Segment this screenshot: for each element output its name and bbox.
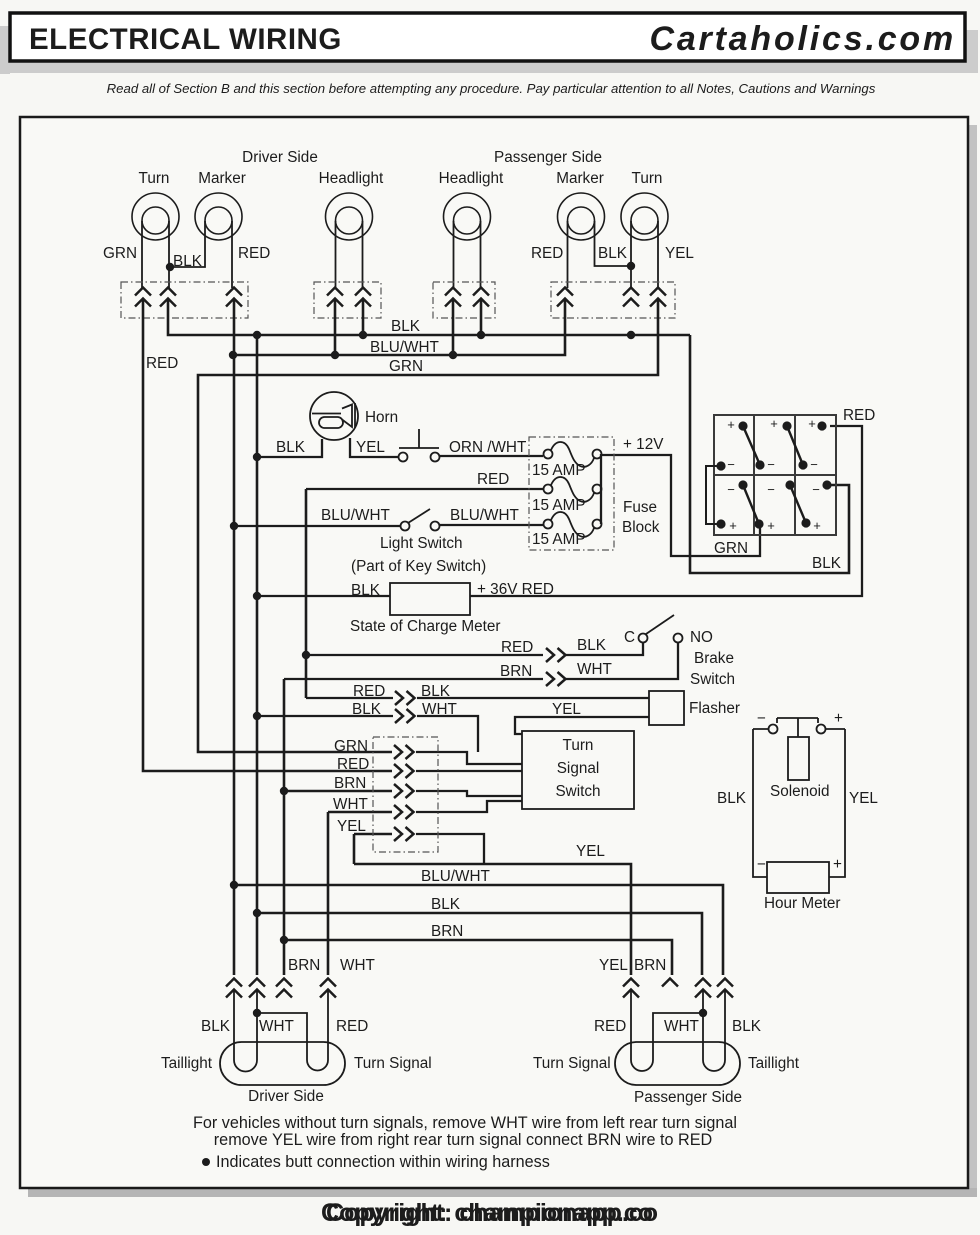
header box	[10, 13, 965, 61]
svg-text:GRN: GRN	[389, 358, 423, 375]
wire BLU/WHT light switch feed	[234, 525, 400, 527]
connector pins brake RED/BLK	[546, 648, 566, 662]
svg-text:BRN: BRN	[334, 775, 366, 792]
svg-text:WHT: WHT	[333, 796, 368, 813]
connector pins passenger turn BLK	[623, 288, 639, 307]
wire headlight passenger BLK drop	[480, 300, 483, 335]
junction BLU/WHT bus tap	[229, 351, 237, 359]
svg-text:BLK: BLK	[717, 790, 747, 807]
svg-text:YEL: YEL	[849, 790, 878, 807]
svg-text:BRN: BRN	[634, 957, 666, 974]
svg-text:Passenger Side: Passenger Side	[494, 149, 602, 166]
connector pins driver marker BLK	[160, 288, 176, 307]
junction BRN rear bus	[280, 936, 288, 944]
wire passenger turn RED leg	[630, 990, 632, 1060]
wire turn signal switch pin 5 to YEL bus	[416, 834, 484, 864]
svg-text:Solenoid: Solenoid	[770, 783, 830, 800]
turn signal switch connector box	[373, 737, 438, 852]
svg-text:−: −	[727, 482, 735, 497]
svg-text:BLU/WHT: BLU/WHT	[321, 507, 390, 524]
wire passenger taillight legs	[703, 990, 725, 1060]
svg-text:Turn Signal: Turn Signal	[354, 1055, 432, 1072]
connector pins passenger turn YEL	[650, 288, 666, 307]
horn	[310, 392, 358, 440]
svg-text:ELECTRICAL WIRING: ELECTRICAL WIRING	[29, 23, 342, 56]
svg-text:RED: RED	[337, 756, 369, 773]
connector pins driver turn GRN	[135, 288, 151, 307]
wire WHT brake switch NO	[565, 643, 678, 679]
svg-text:RED: RED	[501, 639, 533, 656]
lamp Headlight driver	[326, 193, 373, 240]
svg-text:+: +	[813, 518, 821, 533]
junction TSS BRN	[280, 787, 288, 795]
wire turn signal switch pin 4	[416, 801, 522, 812]
battery series loop left	[706, 466, 721, 524]
svg-text:BLK: BLK	[598, 245, 628, 262]
svg-text:BLK: BLK	[812, 555, 842, 572]
junction passenger taillight WHT	[699, 1009, 707, 1017]
svg-text:BLU/WHT: BLU/WHT	[370, 339, 439, 356]
wire driver taillight WHT link	[257, 1013, 307, 1060]
svg-text:Brake: Brake	[694, 650, 734, 667]
wire headlight driver BLU/WHT drop	[334, 300, 337, 355]
svg-text:BLU/WHT: BLU/WHT	[421, 868, 490, 885]
svg-text:+: +	[767, 518, 775, 533]
svg-text:+: +	[727, 417, 735, 432]
junction BLK bus rail	[253, 331, 261, 339]
wire marker driver left pigtail to BLK joint	[170, 221, 205, 267]
svg-text:RED: RED	[353, 683, 385, 700]
svg-text:+ 12V: + 12V	[623, 436, 664, 453]
connector pins TSS WHT	[394, 805, 414, 819]
junction driver headlight BLK	[359, 331, 367, 339]
junction driver headlight BLU/WHT	[331, 351, 339, 359]
svg-text:Driver Side: Driver Side	[248, 1088, 324, 1105]
svg-text:WHT: WHT	[664, 1018, 699, 1035]
wire horn BLK	[257, 439, 322, 457]
svg-text:BLK: BLK	[276, 439, 306, 456]
wire headlight driver BLK drop	[362, 300, 365, 335]
junction meter BLK	[253, 592, 261, 600]
wire WHT row to turn signal switch	[328, 811, 392, 814]
lamp Headlight passenger	[444, 193, 491, 240]
wire +12V to battery GRN	[601, 455, 760, 556]
svg-text:RED: RED	[594, 1018, 626, 1035]
hour meter	[767, 862, 829, 893]
svg-text:For vehicles without turn sign: For vehicles without turn signals, remov…	[193, 1114, 737, 1132]
wire turn passenger BLK pigtail	[630, 221, 632, 288]
wire RED fuse feed rail	[305, 489, 308, 698]
wire BLK rail to rear driver	[256, 335, 259, 975]
svg-text:15 AMP: 15 AMP	[532, 497, 586, 514]
wire headlight passenger BLU/WHT drop	[452, 300, 455, 355]
svg-text:Taillight: Taillight	[748, 1055, 800, 1072]
wire marker passenger right pigtail to BLK joint	[595, 221, 632, 266]
bulb passenger taillight	[703, 1060, 725, 1071]
battery interconnect cables	[718, 423, 831, 528]
junction passenger headlight BLU/WHT	[449, 351, 457, 359]
svg-text:+ 36V RED: + 36V RED	[477, 581, 554, 598]
wire +36V RED battery to meter	[470, 426, 862, 596]
svg-text:YEL: YEL	[599, 957, 628, 974]
svg-text:Turn: Turn	[139, 170, 170, 187]
fuse F2 15 AMP	[544, 477, 602, 502]
lamp housing passenger	[615, 1042, 740, 1085]
wire turn signal switch pin 1	[416, 752, 522, 764]
svg-text:Headlight: Headlight	[439, 170, 504, 187]
svg-text:BLU/WHT: BLU/WHT	[450, 507, 519, 524]
svg-text:Marker: Marker	[198, 170, 246, 187]
svg-text:Fuse: Fuse	[623, 499, 657, 516]
wire turn driver BLK pigtail	[168, 221, 170, 288]
brake switch	[639, 615, 683, 643]
junction BLU/WHT rear bus	[230, 881, 238, 889]
svg-text:BLK: BLK	[732, 1018, 762, 1035]
wire BLK rear bus	[257, 913, 702, 975]
connector rear passenger WHT fork	[662, 979, 678, 987]
svg-text:WHT: WHT	[577, 661, 612, 678]
junction brake RED	[302, 651, 310, 659]
junction horn BLK	[253, 453, 261, 461]
svg-text:+: +	[729, 518, 737, 533]
junction driver taillight WHT	[253, 1009, 261, 1017]
svg-text:Turn: Turn	[563, 737, 594, 754]
wire turn signal switch pin 2	[416, 770, 522, 772]
svg-text:C: C	[624, 629, 635, 646]
wire BLU/WHT bus headlights	[233, 300, 565, 355]
junction BLK rear bus	[253, 909, 261, 917]
connector pins driver headlight BLU/WHT	[327, 288, 343, 307]
wire passenger WHT link	[653, 1013, 703, 1060]
svg-text:GRN: GRN	[714, 540, 748, 557]
wire BRN rail to rear driver	[283, 679, 286, 975]
svg-text:Light Switch: Light Switch	[380, 535, 462, 552]
wire driver taillight WHT leg	[256, 990, 258, 1060]
connector rear driver BRN	[276, 979, 292, 998]
junction passenger turn BLK	[627, 331, 635, 339]
svg-text:Switch: Switch	[555, 783, 600, 800]
wire turn passenger YEL pigtail	[657, 221, 659, 288]
battery terminal labels	[727, 416, 821, 533]
fuse F1 15 AMP	[544, 442, 602, 467]
wire WHT rail turn signal switch to rear driver	[327, 812, 330, 975]
turn signal switch box	[522, 731, 634, 809]
svg-text:+: +	[808, 416, 816, 431]
wire BLK brake switch common	[565, 643, 643, 655]
svg-text:(Part of Key Switch): (Part of Key Switch)	[351, 558, 486, 575]
svg-text:Taillight: Taillight	[161, 1055, 213, 1072]
connector pins TSS YEL	[394, 827, 414, 841]
wire BLK battery return	[690, 335, 849, 573]
svg-text:WHT: WHT	[422, 701, 457, 718]
wire turn signal switch pin 3	[416, 791, 522, 796]
svg-text:Marker: Marker	[556, 170, 604, 187]
junction flasher BLK	[253, 712, 261, 720]
svg-text:BLK: BLK	[421, 683, 451, 700]
connector pins passenger marker RED	[557, 288, 573, 307]
svg-text:Indicates butt connection with: Indicates butt connection within wiring …	[216, 1153, 550, 1171]
wire YEL rear bus to passenger turn signal	[354, 864, 631, 975]
svg-text:Flasher: Flasher	[689, 700, 740, 717]
svg-text:Hour Meter: Hour Meter	[764, 895, 841, 912]
svg-text:BLK: BLK	[351, 582, 381, 599]
wire YEL row turn signal switch	[354, 833, 392, 836]
wire BLK bus front lamps	[168, 300, 690, 335]
wire BRN row to turn signal switch	[284, 790, 392, 793]
solenoid circuit	[753, 718, 845, 877]
wire BLK chevrons to flasher	[417, 697, 649, 699]
svg-text:−: −	[757, 856, 766, 873]
svg-text:State of Charge Meter: State of Charge Meter	[350, 618, 501, 635]
svg-text:RED: RED	[531, 245, 563, 262]
wire marker driver RED pigtail	[231, 221, 233, 288]
wire flasher to turn signal switch YEL	[515, 717, 649, 734]
svg-text:RED: RED	[843, 407, 875, 424]
wire RED to flasher chevrons	[306, 697, 393, 699]
wire BLU/WHT rear bus	[234, 885, 723, 975]
connector pins passenger headlight BLU/WHT	[445, 288, 461, 307]
header shadow	[0, 26, 978, 74]
svg-text:−: −	[767, 457, 775, 472]
battery pack outline	[714, 415, 836, 535]
wire RED rail driver turn to turn signal switch	[143, 300, 392, 771]
connector pins passenger headlight BLK	[473, 288, 489, 307]
wire fuse right bus	[600, 454, 602, 524]
svg-text:BLK: BLK	[391, 318, 421, 335]
svg-text:WHT: WHT	[340, 957, 375, 974]
light switch	[401, 509, 440, 531]
wire headlight driver BLK pigtail	[362, 221, 364, 288]
bulb driver turn signal	[307, 1060, 328, 1071]
connector pins TSS GRN	[394, 745, 414, 759]
svg-text:Horn: Horn	[365, 409, 398, 426]
connector box passenger headlight	[433, 282, 495, 318]
state of charge meter	[390, 583, 470, 615]
svg-text:−: −	[812, 482, 820, 497]
wire BLU/WHT light switch to fuse 3	[440, 524, 543, 526]
svg-text:BRN: BRN	[431, 923, 463, 940]
junction light switch feed	[230, 522, 238, 530]
fuse block box	[529, 437, 614, 550]
wire RED to brake switch	[306, 654, 543, 656]
connector pins brake BRN/WHT	[546, 672, 566, 686]
svg-text:−: −	[757, 710, 766, 727]
svg-text:−: −	[727, 457, 735, 472]
wire BLU/WHT rail marker to rear driver	[233, 300, 236, 975]
connector pins driver marker RED	[226, 288, 242, 307]
svg-text:GRN: GRN	[334, 738, 368, 755]
wire GRN bus to turn signal switch	[198, 300, 658, 752]
svg-text:Turn Signal: Turn Signal	[533, 1055, 611, 1072]
svg-text:Read all of Section B and this: Read all of Section B and this section b…	[107, 81, 876, 96]
svg-text:BLK: BLK	[577, 637, 607, 654]
flasher	[649, 691, 684, 725]
svg-text:Signal: Signal	[557, 760, 600, 777]
wire marker passenger RED pigtail	[567, 221, 569, 288]
wire headlight passenger BLK pigtail	[480, 221, 482, 288]
connector box passenger marker/turn	[551, 282, 675, 318]
svg-text:Cartaholics.com: Cartaholics.com	[649, 20, 956, 58]
svg-text:ORN /WHT: ORN /WHT	[449, 439, 526, 456]
svg-text:Headlight: Headlight	[319, 170, 384, 187]
svg-text:RED: RED	[477, 471, 509, 488]
svg-text:Driver Side: Driver Side	[242, 149, 318, 166]
svg-text:YEL: YEL	[552, 701, 581, 718]
svg-text:WHT: WHT	[259, 1018, 294, 1035]
svg-text:YEL: YEL	[576, 843, 605, 860]
wire BRN to brake switch	[284, 678, 543, 680]
wire headlight passenger BLU/WHT pigtail	[453, 221, 455, 288]
svg-text:BRN: BRN	[500, 663, 532, 680]
svg-text:Switch: Switch	[690, 671, 735, 688]
bulb passenger turn signal	[631, 1060, 653, 1071]
connector pins flasher RED/BLK	[395, 691, 415, 705]
lamp Marker passenger	[558, 193, 605, 240]
connector box driver turn/marker	[121, 282, 248, 318]
svg-text:GRN: GRN	[103, 245, 137, 262]
svg-text:Copyright: championapp.co: Copyright: championapp.co	[326, 1199, 658, 1227]
svg-text:RED: RED	[336, 1018, 368, 1035]
connector box driver headlight	[314, 282, 381, 318]
svg-text:−: −	[767, 482, 775, 497]
svg-text:15 AMP: 15 AMP	[532, 531, 586, 548]
wire BLK flasher return	[257, 715, 393, 717]
connector rear driver BLK	[226, 979, 242, 998]
svg-text:RED: RED	[146, 355, 178, 372]
svg-text:BLK: BLK	[352, 701, 382, 718]
svg-text:+: +	[834, 710, 843, 727]
junction dot BLK driver	[166, 263, 174, 271]
connector rear passenger BLK	[717, 979, 733, 998]
svg-text:15 AMP: 15 AMP	[532, 462, 586, 479]
connector pins TSS BRN	[394, 784, 414, 798]
svg-text:remove YEL wire from right rea: remove YEL wire from right rear turn sig…	[214, 1131, 712, 1149]
wire driver taillight BLK leg	[233, 990, 235, 1060]
svg-text:Passenger Side: Passenger Side	[634, 1089, 742, 1106]
connector pins TSS RED	[394, 764, 414, 778]
wire turn driver GRN pigtail	[141, 221, 143, 288]
fuse F3 15 AMP	[544, 512, 602, 537]
svg-text:RED: RED	[238, 245, 270, 262]
wire horn YEL	[350, 438, 399, 457]
lamp Marker driver	[195, 193, 242, 240]
wire driver turn RED leg	[327, 990, 329, 1060]
wire BLK state of charge meter	[257, 595, 390, 597]
lamp Turn passenger	[621, 193, 668, 240]
wire YEL drop to rear bus	[353, 834, 356, 864]
svg-text:NO: NO	[690, 629, 713, 646]
svg-text:+: +	[833, 856, 842, 873]
lamp Turn driver	[132, 193, 179, 240]
wire WHT chevrons to turn signal switch pin	[417, 716, 478, 752]
wire BRN rear bus	[284, 940, 672, 975]
connector rear driver RED	[320, 979, 336, 998]
svg-text:YEL: YEL	[665, 245, 694, 262]
junction dot BLK passenger	[627, 262, 635, 270]
connector rear driver WHT	[249, 979, 265, 998]
wire RED fuse 2 feed	[306, 488, 543, 490]
svg-text:Block: Block	[622, 519, 660, 536]
svg-text:YEL: YEL	[337, 818, 366, 835]
svg-text:+: +	[770, 416, 778, 431]
note bullet	[202, 1158, 210, 1166]
connector pins flasher BLK/WHT	[395, 709, 415, 723]
svg-text:BRN: BRN	[288, 957, 320, 974]
junction passenger headlight BLK	[477, 331, 485, 339]
connector rear passenger BLK bulb	[695, 979, 711, 998]
svg-text:BLK: BLK	[201, 1018, 231, 1035]
connector pins driver headlight BLK	[355, 288, 371, 307]
lamp housing driver	[220, 1042, 345, 1085]
bulb driver taillight	[234, 1060, 257, 1072]
wire ORN/WHT horn button to fuse 1	[440, 455, 543, 457]
horn button	[399, 429, 440, 462]
wire headlight driver BLU/WHT pigtail	[335, 221, 337, 288]
svg-text:YEL: YEL	[356, 439, 385, 456]
svg-text:−: −	[810, 457, 818, 472]
svg-text:BLK: BLK	[431, 896, 461, 913]
connector rear passenger RED	[623, 979, 639, 998]
svg-text:Turn: Turn	[632, 170, 663, 187]
